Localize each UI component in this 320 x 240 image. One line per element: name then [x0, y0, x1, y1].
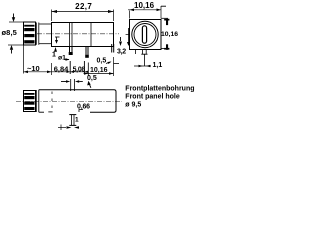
- svg-text:0,5: 0,5: [97, 57, 107, 64]
- svg-text:1: 1: [52, 52, 56, 59]
- svg-text:ø8,5: ø8,5: [2, 28, 17, 37]
- svg-text:10,16: 10,16: [161, 31, 178, 38]
- svg-text:1: 1: [75, 117, 79, 124]
- svg-text:22,7: 22,7: [75, 2, 92, 11]
- svg-text:~10: ~10: [27, 64, 40, 73]
- svg-text:3,2: 3,2: [117, 48, 126, 55]
- svg-text:6,84: 6,84: [54, 64, 69, 73]
- svg-text:Frontplattenbohrung: Frontplattenbohrung: [125, 85, 194, 92]
- svg-text:ø1: ø1: [58, 55, 66, 62]
- svg-text:5,08: 5,08: [73, 66, 86, 73]
- svg-text:Front panel hole: Front panel hole: [125, 93, 180, 100]
- svg-text:10,16: 10,16: [134, 1, 155, 10]
- svg-text:10,16: 10,16: [90, 67, 108, 74]
- svg-text:ø 9,5: ø 9,5: [125, 102, 141, 109]
- svg-text:1,1: 1,1: [153, 62, 163, 69]
